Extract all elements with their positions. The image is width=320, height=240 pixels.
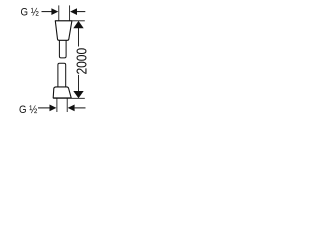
wire: bottom extension line of length dimension: [53, 97, 85, 99]
wire: top extension line of length dimension: [55, 20, 85, 22]
svg-text:G ½: G ½: [21, 6, 39, 19]
bottom thread stub line right (extension bar): [66, 98, 68, 112]
bottom hose connector nut (tapered, widening downward): [53, 87, 71, 98]
svg-text:G ½: G ½: [19, 103, 37, 116]
top thread dim extension bar right: [69, 5, 71, 20]
top thread dim arrowhead right (points left): [70, 8, 77, 15]
svg-text:2000: 2000: [73, 48, 90, 75]
dimension arrowhead down: [73, 91, 83, 98]
top thread dim arrowhead left (points right): [51, 8, 58, 15]
wire: top thread dim leader shaft right: [77, 11, 85, 13]
top hose connector nut (tapered): [55, 21, 72, 41]
bottom thread dim arrowhead right (points left): [68, 105, 75, 112]
wire: bottom thread dim leader shaft left: [38, 107, 50, 109]
bottom thread dim arrowhead left (points right): [50, 105, 57, 112]
hose upper segment: [59, 40, 66, 58]
dimension line vertical lower segment: [78, 75, 80, 92]
top thread dim extension bar left: [58, 5, 60, 20]
bottom thread stub line left (extension bar): [56, 98, 58, 112]
dimension arrowhead up: [73, 21, 83, 28]
wire: top thread dim leader shaft left: [42, 11, 52, 13]
wire: bottom thread dim leader shaft right: [75, 107, 86, 109]
shower hose dimension drawing: [0, 0, 150, 150]
hose lower segment: [58, 63, 66, 87]
dimension line vertical upper segment: [78, 28, 80, 47]
